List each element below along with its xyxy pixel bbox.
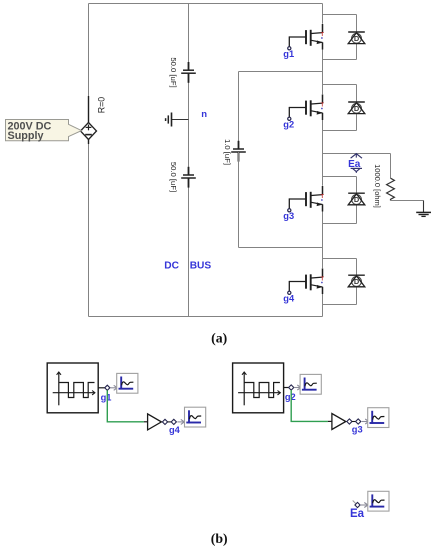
wire: middle DC-bus vertical segments xyxy=(188,4,190,71)
node g4 diamond xyxy=(171,419,176,424)
wire: D4 loop top xyxy=(323,258,357,260)
source V1 diamond xyxy=(81,123,97,145)
wire: load to ground xyxy=(391,200,424,202)
wire: green g2 to NOT2 xyxy=(291,390,328,421)
arrow into scope 3 xyxy=(362,419,369,424)
square-wave source SW1 xyxy=(47,363,98,413)
svg-text:1000.0 [ohm]: 1000.0 [ohm] xyxy=(373,164,382,208)
capacitor C1 50uF top xyxy=(181,62,196,83)
callout: 200V DC Supply xyxy=(6,120,82,143)
arrow into scope Ea xyxy=(361,503,368,508)
svg-text:50.0 [uF]: 50.0 [uF] xyxy=(169,162,178,192)
capacitor C3 1.0uF xyxy=(231,141,246,162)
wire: D3 branch verticals xyxy=(356,177,358,194)
wire: flying cap branch vertical lower xyxy=(238,152,240,248)
node g3 diamond xyxy=(356,419,361,424)
scope probe on Ea xyxy=(368,491,389,511)
wire: left vertical (source branch) upper xyxy=(88,4,90,97)
svg-text:R=0: R=0 xyxy=(97,97,107,113)
wire: D1 loop top xyxy=(323,14,357,16)
arrow into scope 4 xyxy=(177,419,184,424)
wire: SW2 output stub xyxy=(284,387,289,389)
scope probe on g3 xyxy=(368,408,389,428)
svg-text:g3: g3 xyxy=(352,425,363,435)
svg-text:g2: g2 xyxy=(283,120,294,130)
scope probe on g4 xyxy=(185,407,206,427)
svg-text:g1: g1 xyxy=(101,392,112,402)
diode D4 xyxy=(348,275,365,287)
svg-text:BUS: BUS xyxy=(190,260,212,271)
arrow into scope 2 xyxy=(294,385,301,390)
wire: D1 branch verticals xyxy=(356,15,358,33)
svg-text:1.0 [uF]: 1.0 [uF] xyxy=(223,139,232,165)
wire: green g1 to NOT1 xyxy=(107,390,144,421)
wire: NOT1 out to g4 node xyxy=(168,421,172,423)
gate NOT1 xyxy=(144,414,162,430)
wire: SW1 output stub xyxy=(98,387,105,389)
capacitor C2 50uF bottom xyxy=(181,167,196,188)
ground (load return) xyxy=(416,201,431,217)
wire: D4 branch verticals xyxy=(356,259,358,276)
svg-text:n: n xyxy=(201,109,207,120)
node Ea diamond xyxy=(355,502,360,507)
node g2 diamond xyxy=(289,385,294,390)
diode D3 xyxy=(348,193,365,205)
wire: D2 branch verticals xyxy=(356,85,358,103)
node diamond NOT1 out xyxy=(162,419,167,424)
wire: flying cap branch vertical upper xyxy=(238,72,240,150)
resistor R1 1000 ohm xyxy=(387,178,395,200)
arrow into scope 1 xyxy=(110,385,117,390)
transistor Q3 xyxy=(288,186,325,212)
scope probe on g2 xyxy=(300,374,321,394)
gate NOT2 xyxy=(328,414,346,430)
wire: D2 loop top xyxy=(323,84,357,86)
svg-text:g1: g1 xyxy=(283,49,294,59)
wire: bottom DC bus xyxy=(89,316,323,318)
wire: load branch down xyxy=(390,154,392,179)
node g1 diamond xyxy=(105,385,110,390)
wire: inverter leg vertical segments xyxy=(322,4,324,24)
wire: series R=0 segment above source xyxy=(88,96,90,123)
wire: D3 loop bottom xyxy=(323,223,357,225)
transistor Q4 xyxy=(288,269,325,295)
transistor Q1 xyxy=(288,24,325,50)
probe Ea (part a) xyxy=(348,154,362,173)
svg-text:DC: DC xyxy=(164,260,179,271)
svg-text:g3: g3 xyxy=(283,211,294,221)
wire: D3 loop top xyxy=(323,176,357,178)
wire: left vertical lower xyxy=(88,144,90,317)
wire: output node Ea to load xyxy=(323,153,391,155)
diode D2 xyxy=(348,102,365,114)
svg-text:(b): (b) xyxy=(211,531,228,547)
diode D1 xyxy=(348,32,365,44)
ground (midpoint, pointing left) xyxy=(166,113,172,127)
svg-text:Ea: Ea xyxy=(350,508,365,520)
node diamond NOT2 out xyxy=(347,419,352,424)
svg-text:g4: g4 xyxy=(169,425,181,435)
svg-text:(a): (a) xyxy=(211,330,227,346)
wire: ground stub at midpoint xyxy=(172,119,189,121)
svg-text:50.0 [uF]: 50.0 [uF] xyxy=(169,57,178,87)
wire: Ea dangling stub xyxy=(353,501,356,504)
scope probe on g1 xyxy=(117,373,138,393)
wire: NOT2 out to g3 node xyxy=(352,421,356,423)
wire: top DC bus xyxy=(89,3,323,5)
svg-text:g4: g4 xyxy=(283,294,295,304)
square-wave source SW2 xyxy=(233,363,284,413)
wire: D4 loop bottom xyxy=(323,304,357,306)
svg-text:g2: g2 xyxy=(285,392,296,402)
transistor Q2 xyxy=(288,95,325,121)
wire: node between T3/T4 to flying cap (y=247.3) xyxy=(239,247,323,249)
wire: D1 loop bottom xyxy=(323,59,357,61)
svg-text:Supply: Supply xyxy=(8,130,44,142)
wire: node between T1/T2 to flying cap (y=71) xyxy=(239,71,323,73)
wire: D2 loop bottom xyxy=(323,130,357,132)
